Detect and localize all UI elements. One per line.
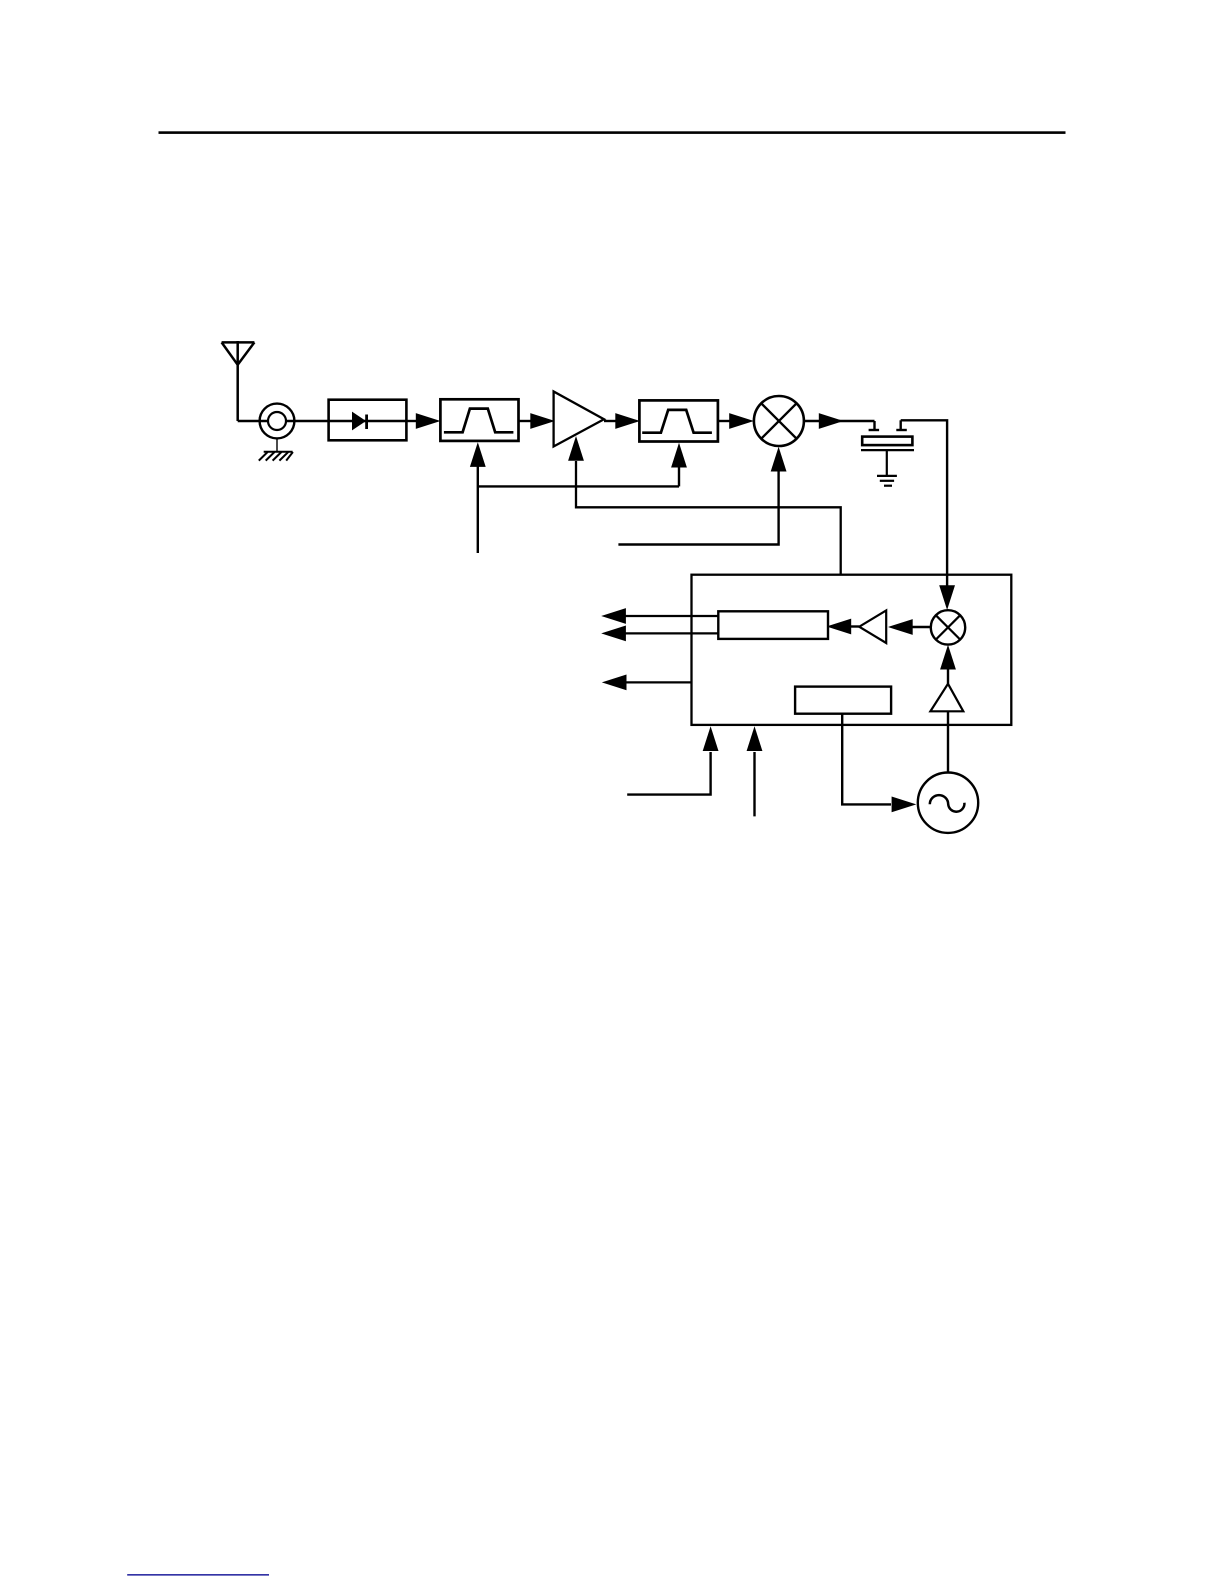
- arrow buffer amp to mixer: [947, 668, 949, 684]
- limiter box with diode D1: [329, 400, 407, 441]
- buffer amplifier A3 (points up): [930, 684, 963, 712]
- local oscillator G1: [918, 773, 978, 833]
- tuning bus wire: [478, 485, 679, 487]
- control input wire 2: [753, 752, 755, 816]
- arrow on IF output wire: [819, 413, 844, 429]
- ceramic filter FL3 (three-terminal resonator): [861, 420, 914, 475]
- diode D1: [329, 412, 407, 431]
- arrow BPF1 to amp: [519, 420, 532, 422]
- wire ceramic filter to IF chip mixer: [901, 420, 947, 587]
- mixer U1 (first mixer): [754, 396, 804, 446]
- connector J1 (coax jack): [260, 404, 329, 439]
- arrow into oscillator: [892, 797, 917, 813]
- tuning line to BPF1: [477, 465, 479, 553]
- oscillator buffer block: [795, 687, 891, 714]
- demodulator block: [718, 611, 828, 639]
- antenna ANT1: [222, 341, 255, 421]
- IF subsystem box U2: [692, 575, 1012, 725]
- ground (signal ground of FL3): [877, 476, 897, 486]
- band-pass filter FL1: [440, 399, 518, 441]
- wire antenna to connector: [238, 420, 261, 423]
- arrow IF amp to demodulator: [851, 625, 859, 627]
- arrow into second mixer: [939, 585, 955, 610]
- wire oscillator to buffer amp: [947, 711, 949, 772]
- mixer U2a (second mixer): [931, 610, 965, 644]
- arrow amp to BPF2: [604, 420, 617, 422]
- LO injection line to mixer: [618, 471, 778, 545]
- wire buffer block to oscillator: [842, 714, 891, 805]
- header rule: [159, 131, 1066, 134]
- RSSI output wire: [626, 681, 692, 683]
- chassis ground: [259, 452, 293, 461]
- tuning line to BPF2: [678, 465, 680, 486]
- wire connector to chassis ground: [276, 438, 278, 451]
- arrow BPF2 to mixer: [718, 420, 730, 422]
- arrow limiter to BPF1: [406, 420, 418, 422]
- IF amplifier A2 (points left): [859, 610, 886, 643]
- gain control line to amp: [576, 461, 841, 575]
- audio output wire 2: [625, 632, 718, 634]
- band-pass filter FL2: [639, 400, 718, 441]
- arrow mixer to IF amp: [910, 626, 931, 628]
- control input wire 1 (L-shaped): [627, 752, 710, 795]
- audio output wire 1: [625, 615, 718, 617]
- RF amplifier A1: [554, 392, 604, 447]
- footer link underline: [127, 1574, 269, 1576]
- wire mixer to ceramic filter: [804, 420, 875, 422]
